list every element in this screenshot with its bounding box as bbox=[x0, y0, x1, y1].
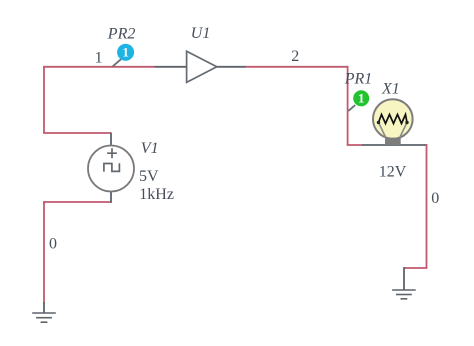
wire net1 to V1 plus bbox=[43, 132, 111, 134]
svg-text:U1: U1 bbox=[191, 25, 211, 42]
ground left symbol bbox=[32, 313, 56, 322]
wire net0 bottom right horizontal bbox=[404, 267, 427, 269]
svg-text:5V: 5V bbox=[139, 168, 159, 185]
probe PR2 pointer bbox=[113, 59, 121, 66]
wire net0 right vertical bbox=[426, 144, 428, 268]
source V1 top pin bbox=[110, 133, 112, 147]
svg-text:X1: X1 bbox=[381, 81, 400, 98]
svg-text:0: 0 bbox=[431, 190, 439, 207]
wire net2 vertical to lamp bbox=[347, 66, 349, 145]
svg-text:PR1: PR1 bbox=[344, 71, 373, 88]
lamp X1 bulb circle bbox=[373, 99, 413, 139]
lamp X1 base bbox=[385, 138, 401, 145]
svg-text:0: 0 bbox=[49, 236, 57, 253]
wire net0 lamp right to corner bbox=[424, 144, 427, 146]
probe PR1 pointer bbox=[348, 105, 355, 111]
lamp X1 filament left dot bbox=[377, 121, 380, 124]
wire net1 left vertical bbox=[43, 66, 45, 133]
buffer U1 input pin bbox=[155, 66, 188, 68]
source V1 bottom pin bbox=[110, 191, 112, 203]
wire net0 V1 minus horizontal bbox=[43, 201, 111, 203]
lamp X1 filament zigzag bbox=[379, 115, 408, 124]
wire net0 left vertical bbox=[43, 201, 45, 303]
source V1 plus sign bbox=[107, 148, 117, 158]
svg-text:1: 1 bbox=[122, 45, 129, 60]
wire net2 buffer output bbox=[245, 66, 349, 68]
ground right symbol bbox=[392, 290, 416, 299]
svg-text:1kHz: 1kHz bbox=[139, 186, 174, 203]
buffer U1 output pin bbox=[216, 66, 246, 68]
lamp X1 left support bbox=[379, 123, 387, 140]
source V1 circle bbox=[88, 146, 134, 192]
ground left stub bbox=[43, 302, 45, 313]
op-amp buffer U1 triangle bbox=[187, 51, 217, 82]
wire net1 top horizontal bbox=[43, 66, 155, 68]
wire net2 lamp left stub bbox=[347, 144, 363, 146]
svg-text:2: 2 bbox=[291, 48, 299, 65]
svg-text:1: 1 bbox=[95, 50, 103, 67]
lamp X1 pin line bbox=[362, 144, 425, 146]
source V1 square wave glyph bbox=[104, 163, 120, 171]
probe PR1 circle bbox=[353, 90, 369, 106]
svg-text:V1: V1 bbox=[141, 140, 159, 157]
probe PR2 circle bbox=[117, 44, 134, 61]
svg-text:12V: 12V bbox=[379, 164, 407, 181]
svg-text:1: 1 bbox=[358, 91, 365, 106]
ground right stub bbox=[403, 267, 405, 290]
lamp X1 filament right dot bbox=[405, 121, 408, 124]
svg-text:PR2: PR2 bbox=[107, 26, 136, 43]
lamp X1 right support bbox=[399, 123, 407, 140]
